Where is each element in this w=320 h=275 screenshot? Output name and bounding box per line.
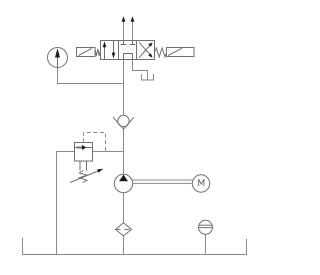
- valve V1 body: [101, 41, 155, 60]
- solenoid Y2: [167, 48, 195, 57]
- relief valve plunger: [79, 161, 81, 171]
- level gauge LG1: [199, 220, 213, 234]
- valve left position arrows: [104, 46, 106, 60]
- tank symbol T drain: [142, 74, 154, 80]
- wire pilot dashed line: [84, 133, 106, 152]
- wire port B up: [132, 21, 134, 41]
- wire relief valve to main line: [93, 151, 124, 153]
- valve right position crossed arrows: [139, 45, 150, 58]
- wire filter to tank: [123, 236, 125, 255]
- filter F1: [116, 223, 132, 236]
- wire port A up: [123, 21, 125, 41]
- pressure gauge P1: [48, 48, 68, 68]
- wire pump to filter: [123, 193, 125, 223]
- wire check valve to pump: [123, 129, 125, 174]
- wire relief valve to tank left: [57, 152, 75, 255]
- valve center position bridge: [124, 54, 133, 60]
- relief valve adjustment arrow: [70, 171, 98, 183]
- node arrow A: [122, 16, 126, 22]
- reservoir tank: [23, 238, 247, 255]
- wire P main line valve to check valve: [123, 60, 125, 116]
- pump PU1: [114, 174, 132, 192]
- wire level gauge stem: [205, 234, 207, 254]
- check valve CV1: [118, 115, 129, 126]
- motor M1: [192, 175, 209, 192]
- spring left: [95, 49, 101, 56]
- wire motor shaft: [133, 179, 193, 181]
- wire T drain: [133, 60, 148, 80]
- solenoid Y1: [77, 48, 96, 57]
- spring right: [155, 48, 167, 57]
- relief valve spring: [79, 171, 87, 183]
- valve center position blocked ports: [123, 41, 125, 45]
- node arrow B: [131, 16, 135, 22]
- relief valve RV1: [75, 143, 93, 162]
- wire gauge branch: [58, 68, 124, 84]
